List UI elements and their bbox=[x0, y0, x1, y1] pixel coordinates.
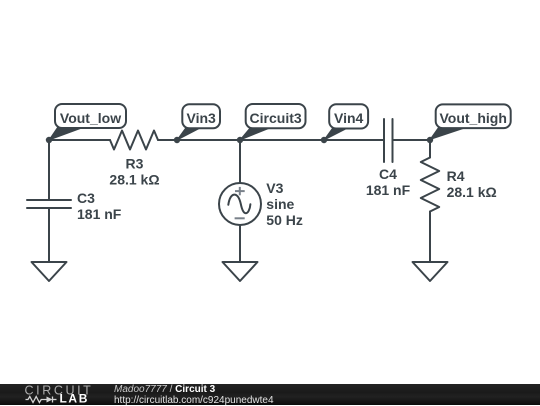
svg-text:28.1 kΩ: 28.1 kΩ bbox=[447, 184, 497, 200]
svg-text:181 nF: 181 nF bbox=[366, 182, 411, 198]
svg-text:Vout_low: Vout_low bbox=[60, 110, 121, 126]
svg-text:C4: C4 bbox=[379, 166, 397, 182]
svg-text:R4: R4 bbox=[447, 168, 465, 184]
svg-text:Circuit3: Circuit3 bbox=[250, 110, 302, 126]
svg-text:181 nF: 181 nF bbox=[77, 206, 122, 222]
svg-text:Vout_high: Vout_high bbox=[439, 110, 506, 126]
svg-text:sine: sine bbox=[266, 196, 294, 212]
svg-text:50 Hz: 50 Hz bbox=[266, 212, 303, 228]
svg-text:LAB: LAB bbox=[60, 391, 89, 405]
svg-text:V3: V3 bbox=[266, 180, 283, 196]
svg-text:R3: R3 bbox=[126, 156, 144, 172]
svg-text:Vin3: Vin3 bbox=[187, 110, 217, 126]
svg-text:Vin4: Vin4 bbox=[334, 110, 364, 126]
svg-text:28.1 kΩ: 28.1 kΩ bbox=[109, 172, 159, 188]
svg-text:C3: C3 bbox=[77, 190, 95, 206]
